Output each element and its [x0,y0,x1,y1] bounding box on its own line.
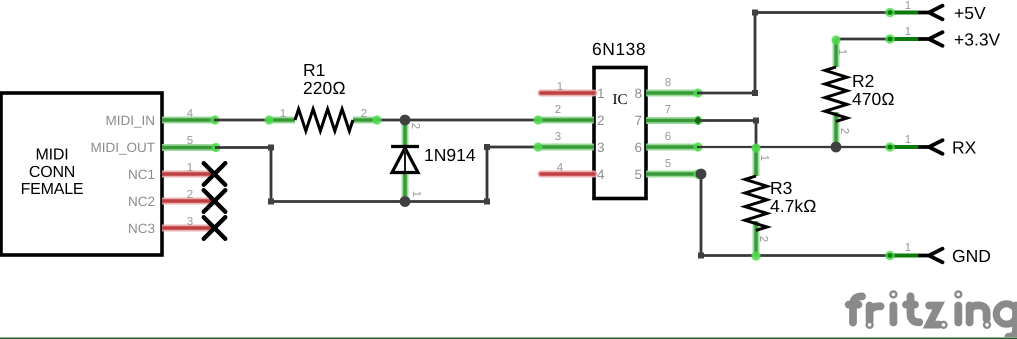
IC pin 2 leg (green) [533,104,594,125]
wire +3.3V to R2 top [836,38,889,41]
bendpoint (271,201.5) [268,199,274,205]
svg-text:5: 5 [665,158,671,170]
svg-text:MIDI_IN: MIDI_IN [105,113,155,128]
svg-text:220Ω: 220Ω [303,78,346,98]
wire IC pin 5 down to GND rail [701,174,890,256]
svg-text:5: 5 [187,135,193,147]
diode D1 1N914 [391,120,422,202]
svg-text:7: 7 [665,104,671,116]
svg-text:7: 7 [634,113,642,128]
svg-text:8: 8 [665,77,671,89]
junction node C (701,174) [696,169,707,180]
IC pin 8 leg (green) [646,77,703,98]
svg-text:1: 1 [836,49,848,55]
svg-text:+3.3V: +3.3V [954,30,1001,50]
svg-text:1: 1 [187,162,193,174]
svg-text:R3: R3 [770,178,792,198]
svg-text:4: 4 [187,108,194,120]
connector GND leg [885,242,920,260]
junction node B (405,201.5) [400,196,411,207]
svg-text:CONN: CONN [29,164,75,181]
svg-text:4: 4 [557,162,564,174]
bendpoint (271,147.5) [268,145,274,151]
connector RX leg [885,134,920,152]
svg-text:NC1: NC1 [128,167,155,182]
IC U1 6N138 body [594,68,646,199]
pin 3 leg NC3 (red, not connected) [162,216,215,228]
connector +5V arrow [920,6,943,20]
svg-text:RX: RX [952,138,977,158]
IC pin 4 leg (red, unconnected) [541,162,594,174]
junction node D (836,147) [831,142,842,153]
connector +5V leg [885,0,920,17]
svg-text:1: 1 [758,155,770,161]
pin 4 leg MIDI_IN (green) [162,108,220,125]
connector +3.3V leg [885,26,920,44]
svg-text:2: 2 [597,113,605,128]
junction node A (405,120) [400,115,411,126]
IC pin 1 leg (red, unconnected) [541,81,594,93]
connector +3.3V arrow [920,32,943,46]
pin 1 leg NC1 (red, not connected) [162,162,215,174]
wire R1 to node A (diode top) [376,119,405,122]
svg-text:R1: R1 [303,60,325,80]
junction pin7 leg end [694,116,702,124]
svg-text:2: 2 [409,123,421,129]
svg-text:6N138: 6N138 [592,39,646,59]
pin 5 leg MIDI_OUT (green) [162,135,221,152]
svg-text:6: 6 [634,140,642,155]
svg-text:FEMALE: FEMALE [21,181,84,198]
IC pin 7 leg (green) [646,104,703,125]
resistor R2 470 ohm [825,35,850,150]
IC pin 5 leg (green) [646,158,703,179]
svg-text:1: 1 [597,86,605,101]
resistor R1 220 ohm [264,108,381,131]
svg-text:GND: GND [952,246,991,266]
svg-text:MIDI: MIDI [36,147,69,164]
svg-text:1: 1 [410,191,422,197]
svg-text:2: 2 [757,236,769,242]
connector J1 MIDI CONN FEMALE body [1,93,162,255]
svg-text:2: 2 [187,189,193,201]
svg-text:4.7kΩ: 4.7kΩ [770,196,817,216]
pin 2 leg NC2 (red, not connected) [162,189,215,201]
no-connect X on NC3 [204,217,226,239]
wire node B (diode bottom) to right riser [405,147,540,202]
bendpoint (755,93) [752,90,758,96]
wire node A to IC pin 2 [405,119,540,122]
svg-text:1: 1 [905,134,911,146]
svg-text:3: 3 [597,140,605,155]
bendpoint (701,255.5) [698,253,704,259]
svg-text:3: 3 [187,216,193,228]
connector RX arrow [920,140,943,154]
footer rule [0,336,1017,339]
svg-text:2: 2 [361,108,367,120]
wire MIDI_OUT down loop [215,148,405,202]
wire IC pin 7 to R3 top [697,121,756,177]
svg-text:1: 1 [905,26,911,38]
svg-text:NC3: NC3 [128,221,155,236]
svg-text:1: 1 [905,242,911,254]
connector GND arrow [920,249,943,263]
svg-text:IC: IC [613,92,628,108]
wire MIDI_IN to R1 [214,119,270,122]
bendpoint (755,12.5) [752,10,758,16]
svg-text:1N914: 1N914 [424,145,476,165]
svg-text:3: 3 [555,131,561,143]
svg-text:8: 8 [634,86,642,101]
no-connect X on NC2 [204,190,226,212]
svg-text:4: 4 [597,167,605,182]
svg-text:MIDI_OUT: MIDI_OUT [90,140,155,155]
bendpoint (487,201.5) [484,199,490,205]
svg-text:1: 1 [557,81,563,93]
svg-text:R2: R2 [852,71,874,91]
svg-text:5: 5 [634,167,642,182]
IC pin 6 leg (green) [646,131,703,152]
bendpoint (487,147) [484,144,490,150]
svg-text:1: 1 [280,108,286,120]
resistor R3 4.7k [745,143,770,260]
svg-text:2: 2 [555,104,561,116]
fritzing logo [849,296,1017,337]
svg-text:6: 6 [665,131,671,143]
svg-text:470Ω: 470Ω [852,89,895,109]
wire IC pin 6 to RX [697,146,890,148]
wire IC pin 8 to +5V rail [697,13,889,94]
svg-text:2: 2 [838,128,850,134]
bendpoint (756,120.5) [753,118,759,124]
no-connect X on NC1 [204,163,226,185]
svg-text:+5V: +5V [954,3,986,23]
logo pad rings [867,291,990,327]
IC pin 3 leg (green) [533,131,594,152]
svg-text:1: 1 [905,0,911,12]
svg-text:NC2: NC2 [128,194,155,209]
